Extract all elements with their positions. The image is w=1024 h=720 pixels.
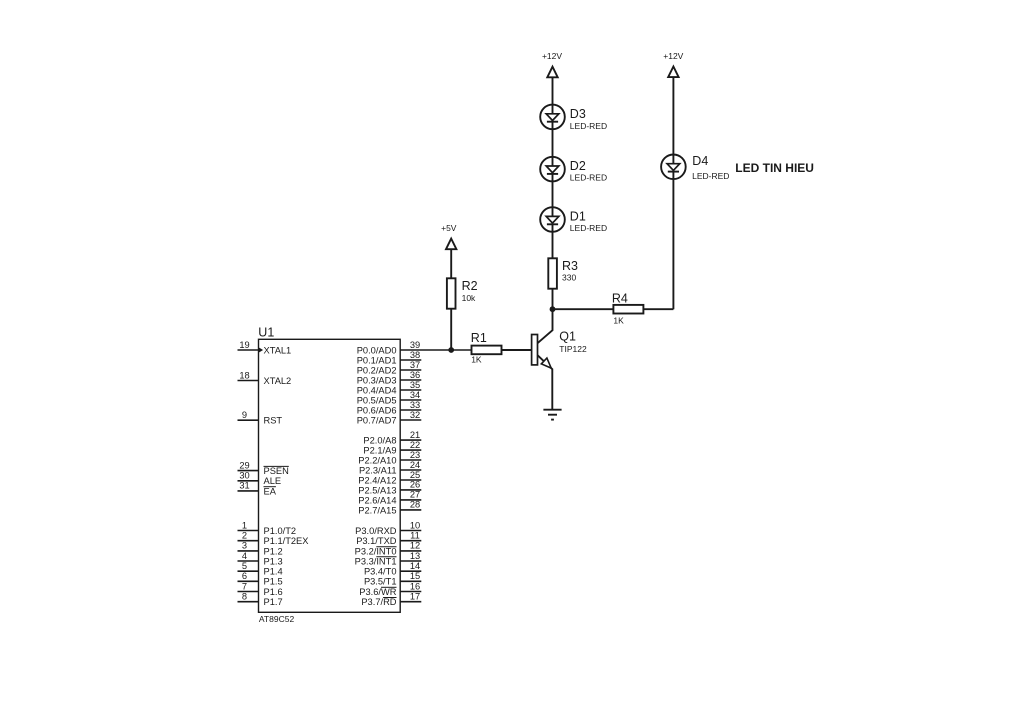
pin 35 P0.4/AD4 (right): [357, 380, 422, 396]
svg-text:P1.4: P1.4: [264, 567, 283, 577]
svg-text:P2.7/A15: P2.7/A15: [358, 505, 396, 515]
svg-text:P0.2/AD2: P0.2/AD2: [357, 365, 397, 375]
svg-text:21: 21: [410, 430, 420, 440]
svg-text:R3: R3: [562, 259, 578, 273]
wire D4 branch vertical (+12V arrow down through D4 to corner): [672, 77, 674, 309]
+12V power symbol (LED chain): [542, 51, 562, 77]
pin 31 EA (left): [238, 481, 277, 497]
svg-text:14: 14: [410, 561, 420, 571]
svg-text:ALE: ALE: [264, 476, 282, 486]
svg-text:LED-RED: LED-RED: [570, 223, 607, 233]
pin 1 P1.0/T2 (left): [238, 520, 297, 536]
svg-text:P1.2: P1.2: [264, 546, 283, 556]
svg-text:26: 26: [410, 480, 420, 490]
svg-text:P3.3/INT1: P3.3/INT1: [355, 556, 397, 566]
svg-text:LED TIN HIEU: LED TIN HIEU: [735, 161, 814, 175]
pin 32 P0.7/AD7 (right): [357, 410, 422, 426]
svg-text:22: 22: [410, 440, 420, 450]
pin 30 ALE (left): [238, 471, 282, 487]
svg-text:17: 17: [410, 592, 420, 602]
resistor R4 1K (D4 branch): [612, 292, 644, 326]
svg-text:P3.5/T1: P3.5/T1: [364, 577, 397, 587]
pin 24 P2.3/A11 (right): [359, 460, 421, 476]
svg-text:XTAL2: XTAL2: [264, 376, 292, 386]
svg-text:P0.4/AD4: P0.4/AD4: [357, 385, 397, 395]
svg-text:LED-RED: LED-RED: [692, 171, 729, 181]
svg-text:7: 7: [242, 581, 247, 591]
svg-text:P2.6/A14: P2.6/A14: [358, 495, 396, 505]
svg-text:19: 19: [239, 340, 249, 350]
pin 29 PSEN (left): [238, 460, 289, 476]
svg-text:28: 28: [410, 500, 420, 510]
+5V power symbol: [441, 223, 457, 249]
wire R3 bottom to collector node: [552, 289, 554, 310]
wire R1 right to Q1 base: [502, 349, 532, 351]
pin 10 P3.0/RXD (right): [355, 520, 421, 536]
svg-text:P3.4/T0: P3.4/T0: [364, 567, 397, 577]
pin 39 P0.0/AD0 (right): [357, 340, 472, 356]
svg-text:P0.7/AD7: P0.7/AD7: [357, 415, 397, 425]
pin 3 P1.2 (left): [238, 541, 283, 557]
svg-text:23: 23: [410, 450, 420, 460]
svg-text:33: 33: [410, 400, 420, 410]
svg-text:P3.2/INT0: P3.2/INT0: [355, 546, 397, 556]
svg-text:8: 8: [242, 592, 247, 602]
svg-text:LED-RED: LED-RED: [570, 173, 607, 183]
svg-text:13: 13: [410, 551, 420, 561]
pin 6 P1.5 (left): [238, 571, 283, 587]
pin 5 P1.4 (left): [238, 561, 283, 577]
LED D2 LED-RED: [540, 157, 607, 183]
svg-text:EA: EA: [264, 486, 277, 496]
svg-text:2: 2: [242, 531, 247, 541]
svg-text:9: 9: [242, 410, 247, 420]
svg-text:P0.1/AD1: P0.1/AD1: [357, 355, 397, 365]
wire +12V arrow down through LEDs to R3 top: [552, 77, 554, 258]
svg-text:39: 39: [410, 340, 420, 350]
svg-text:P1.1/T2EX: P1.1/T2EX: [264, 536, 309, 546]
svg-text:D1: D1: [570, 209, 586, 223]
pin 2 P1.1/T2EX (left): [238, 531, 309, 547]
svg-text:35: 35: [410, 380, 420, 390]
svg-text:XTAL1: XTAL1: [264, 345, 292, 355]
svg-text:R1: R1: [471, 331, 487, 345]
svg-text:P1.5: P1.5: [264, 577, 283, 587]
transistor Q1 TIP122: [532, 309, 587, 410]
svg-text:10k: 10k: [462, 293, 476, 303]
svg-text:P1.0/T2: P1.0/T2: [264, 526, 297, 536]
pin 4 P1.3 (left): [238, 551, 283, 567]
pin 26 P2.5/A13 (right): [358, 480, 421, 496]
wire +5V arrow to R2 top: [450, 249, 452, 278]
svg-text:1K: 1K: [613, 315, 624, 325]
pin 27 P2.6/A14 (right): [358, 490, 421, 506]
svg-text:+5V: +5V: [441, 223, 457, 233]
pin 15 P3.5/T1 (right): [364, 571, 421, 587]
pin 16 P3.6/WR (right): [359, 581, 421, 597]
svg-text:LED-RED: LED-RED: [570, 121, 607, 131]
svg-text:RST: RST: [264, 416, 283, 426]
pin 36 P0.3/AD3 (right): [357, 370, 422, 386]
pin 8 P1.7 (left): [238, 592, 283, 608]
svg-text:PSEN: PSEN: [264, 466, 289, 476]
pin 34 P0.5/AD5 (right): [357, 390, 422, 406]
svg-text:D4: D4: [692, 154, 708, 168]
svg-text:P3.6/WR: P3.6/WR: [359, 587, 396, 597]
svg-text:34: 34: [410, 390, 420, 400]
svg-text:R2: R2: [462, 279, 478, 293]
svg-text:P2.1/A9: P2.1/A9: [363, 446, 396, 456]
svg-text:P3.0/RXD: P3.0/RXD: [355, 526, 397, 536]
IC U1 AT89C52 body: [259, 339, 401, 612]
svg-text:P0.0/AD0: P0.0/AD0: [357, 345, 397, 355]
resistor R3 330 (LED chain): [548, 258, 578, 288]
svg-text:1: 1: [242, 520, 247, 530]
svg-text:37: 37: [410, 360, 420, 370]
svg-text:31: 31: [239, 481, 249, 491]
svg-text:P0.3/AD3: P0.3/AD3: [357, 375, 397, 385]
svg-text:P2.3/A11: P2.3/A11: [359, 465, 397, 475]
pin 21 P2.0/A8 (right): [363, 430, 421, 446]
svg-text:+12V: +12V: [542, 51, 562, 61]
svg-text:+12V: +12V: [663, 51, 683, 61]
pin 33 P0.6/AD6 (right): [357, 400, 422, 416]
pin 37 P0.2/AD2 (right): [357, 360, 422, 376]
pin 23 P2.2/A10 (right): [358, 450, 421, 466]
svg-text:30: 30: [239, 471, 249, 481]
svg-text:P2.2/A10: P2.2/A10: [358, 455, 396, 465]
junction node R2 / P0.0 wire: [448, 347, 454, 353]
svg-text:32: 32: [410, 410, 420, 420]
pin 17 P3.7/RD (right): [361, 592, 421, 608]
svg-text:1K: 1K: [471, 355, 482, 365]
svg-text:27: 27: [410, 490, 420, 500]
svg-text:P3.7/RD: P3.7/RD: [361, 597, 396, 607]
svg-text:P3.1/TXD: P3.1/TXD: [356, 536, 397, 546]
svg-text:TIP122: TIP122: [559, 344, 587, 354]
svg-text:AT89C52: AT89C52: [259, 614, 295, 624]
svg-text:P0.6/AD6: P0.6/AD6: [357, 405, 397, 415]
pin 13 P3.3/INT1 (right): [355, 551, 422, 567]
LED D1 LED-RED: [540, 207, 607, 233]
svg-text:16: 16: [410, 581, 420, 591]
wire node to R4 left: [553, 308, 614, 310]
svg-text:P1.3: P1.3: [264, 556, 283, 566]
svg-text:P2.5/A13: P2.5/A13: [358, 485, 396, 495]
pin 18 XTAL2 (left): [238, 370, 292, 386]
svg-text:P1.6: P1.6: [264, 587, 283, 597]
svg-text:P2.0/A8: P2.0/A8: [363, 436, 396, 446]
svg-text:P1.7: P1.7: [264, 597, 283, 607]
svg-text:P0.5/AD5: P0.5/AD5: [357, 395, 397, 405]
wire R2 bottom to node at P0.0 net: [450, 309, 452, 350]
svg-text:P2.4/A12: P2.4/A12: [358, 475, 396, 485]
resistor R1 1K (base series): [471, 331, 502, 365]
+12V power symbol (D4): [663, 51, 683, 77]
wire R4 right to D4 branch corner: [643, 308, 673, 310]
svg-text:6: 6: [242, 571, 247, 581]
svg-text:D2: D2: [570, 159, 586, 173]
pin 11 P3.1/TXD (right): [356, 531, 421, 547]
pin 14 P3.4/T0 (right): [364, 561, 421, 577]
svg-text:4: 4: [242, 551, 247, 561]
pin 9 RST (left): [238, 410, 283, 426]
svg-text:18: 18: [239, 370, 249, 380]
svg-text:3: 3: [242, 541, 247, 551]
svg-text:330: 330: [562, 272, 576, 282]
junction node R3 / R4 / Q1 collector: [550, 306, 556, 312]
svg-text:10: 10: [410, 520, 420, 530]
pin 22 P2.1/A9 (right): [363, 440, 421, 456]
LED D4 LED-RED: [661, 154, 729, 181]
resistor R2 10k (pull-up): [447, 278, 478, 308]
LED D3 LED-RED: [540, 105, 607, 131]
svg-text:11: 11: [410, 531, 420, 541]
svg-text:24: 24: [410, 460, 420, 470]
svg-text:15: 15: [410, 571, 420, 581]
svg-text:36: 36: [410, 370, 420, 380]
pin 25 P2.4/A12 (right): [358, 470, 421, 486]
svg-text:29: 29: [239, 460, 249, 470]
pin 19 XTAL1 (left): [238, 340, 292, 356]
svg-text:R4: R4: [612, 292, 628, 306]
svg-text:D3: D3: [570, 107, 586, 121]
pin 12 P3.2/INT0 (right): [355, 541, 422, 557]
svg-text:Q1: Q1: [559, 330, 576, 344]
ground symbol (Q1 emitter): [543, 410, 561, 420]
svg-text:38: 38: [410, 350, 420, 360]
pin 7 P1.6 (left): [238, 581, 283, 597]
svg-text:5: 5: [242, 561, 247, 571]
svg-text:U1: U1: [258, 326, 274, 340]
svg-text:25: 25: [410, 470, 420, 480]
pin 28 P2.7/A15 (right): [358, 500, 421, 516]
svg-text:12: 12: [410, 541, 420, 551]
pin 38 P0.1/AD1 (right): [357, 350, 422, 366]
